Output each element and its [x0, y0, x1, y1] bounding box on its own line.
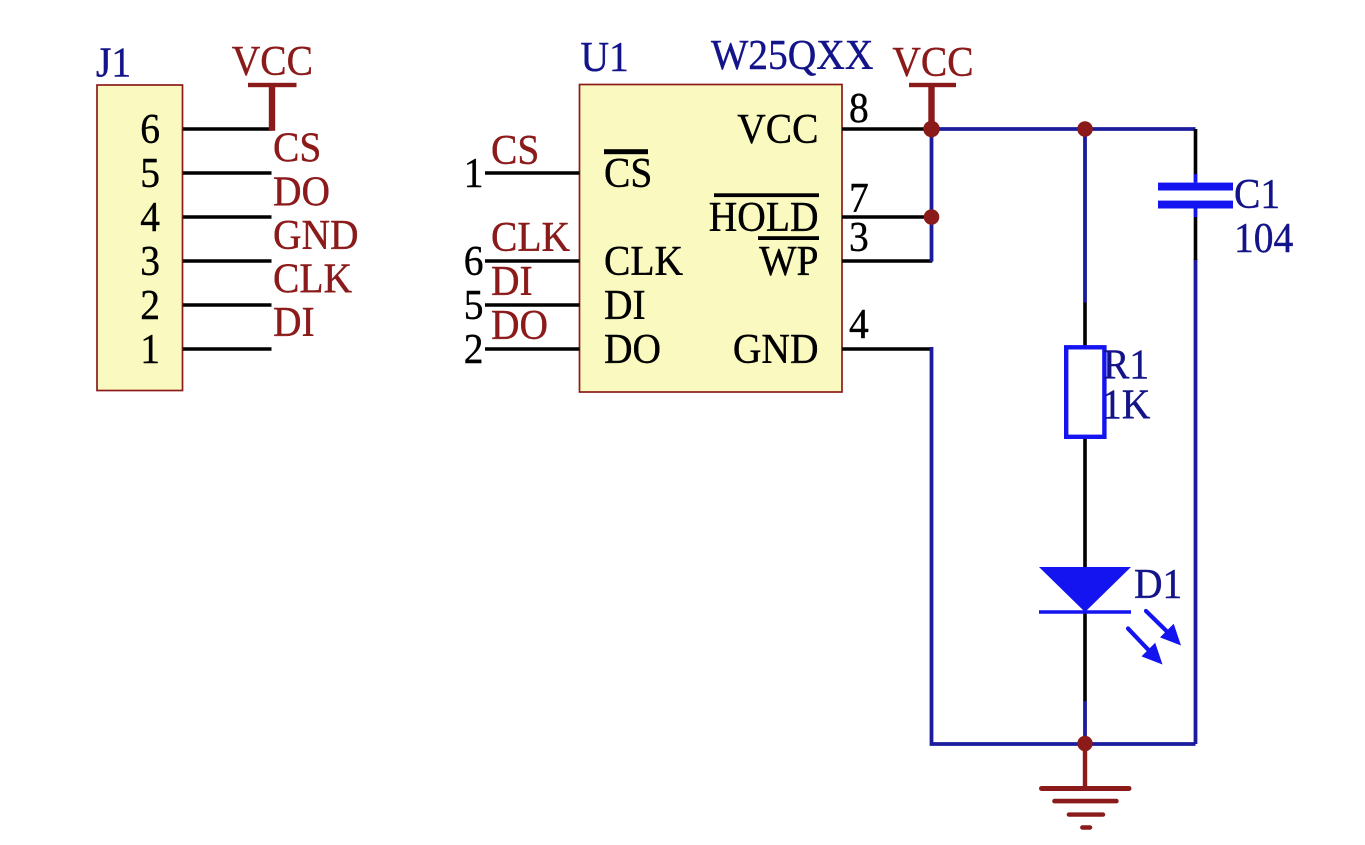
svg-text:6: 6 — [464, 237, 484, 285]
svg-text:J1: J1 — [96, 38, 131, 86]
svg-text:C1: C1 — [1234, 170, 1280, 218]
svg-text:4: 4 — [849, 300, 869, 348]
svg-text:3: 3 — [140, 237, 160, 285]
svg-text:4: 4 — [140, 193, 160, 241]
svg-text:W25QXX: W25QXX — [711, 31, 873, 79]
svg-text:U1: U1 — [580, 33, 628, 81]
svg-text:CS: CS — [604, 149, 652, 197]
svg-text:CLK: CLK — [604, 237, 683, 285]
svg-text:5: 5 — [140, 149, 160, 197]
svg-text:CLK: CLK — [273, 254, 352, 302]
svg-text:104: 104 — [1234, 214, 1293, 262]
svg-text:DO: DO — [604, 325, 661, 373]
svg-text:GND: GND — [273, 211, 359, 259]
svg-text:CLK: CLK — [491, 213, 570, 261]
svg-text:DI: DI — [604, 281, 646, 329]
svg-text:VCC: VCC — [892, 38, 973, 86]
svg-text:WP: WP — [759, 237, 818, 285]
svg-text:8: 8 — [849, 84, 869, 132]
svg-text:GND: GND — [733, 325, 819, 373]
svg-text:3: 3 — [849, 213, 869, 261]
svg-text:1: 1 — [464, 149, 484, 197]
svg-text:CS: CS — [491, 126, 539, 174]
svg-text:2: 2 — [140, 281, 160, 329]
svg-text:CS: CS — [273, 123, 321, 171]
svg-text:6: 6 — [140, 105, 160, 153]
svg-text:HOLD: HOLD — [709, 193, 819, 241]
svg-text:VCC: VCC — [737, 105, 818, 153]
svg-text:5: 5 — [464, 281, 484, 329]
svg-text:1: 1 — [140, 325, 160, 373]
svg-text:D1: D1 — [1134, 560, 1182, 608]
svg-text:DO: DO — [273, 167, 330, 215]
svg-text:2: 2 — [464, 325, 484, 373]
svg-text:DI: DI — [273, 298, 315, 346]
svg-text:VCC: VCC — [232, 37, 313, 85]
svg-text:DI: DI — [491, 257, 533, 305]
svg-text:DO: DO — [491, 301, 548, 349]
svg-text:1K: 1K — [1102, 380, 1151, 428]
